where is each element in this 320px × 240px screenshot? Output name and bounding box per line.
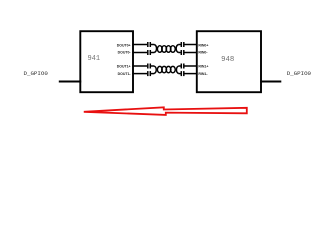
wire choke to C7 [179,65,181,67]
wire DOUT1+ stub [132,65,147,67]
capacitor C5 [181,42,184,47]
wire RIN1+ stub [184,65,197,67]
inductor L1 [154,45,179,53]
wire choke to C8 [179,73,181,75]
svg-text:RIN1-: RIN1- [198,72,208,76]
wire RIN0- stub [184,52,197,54]
wire C1 to choke [151,44,154,46]
capacitor C6 [181,50,184,55]
wire DOUT1- stub [132,73,147,75]
svg-text:948: 948 [221,56,234,64]
capacitor C8 [181,71,184,76]
capacitor C1 [148,42,151,47]
annotation arrow [84,107,247,115]
deserializer U2 box [197,31,261,92]
wire C4 to choke [151,73,154,75]
svg-text:DOUT0-: DOUT0- [118,50,132,54]
wire RIN1- stub [184,73,197,75]
wire C3 to choke [151,65,154,67]
inductor L2 [154,66,179,74]
capacitor C7 [181,64,184,69]
wire DOUT0- stub [132,52,147,54]
serializer U1 box [80,31,133,92]
svg-text:D_GPIO0: D_GPIO0 [24,70,49,77]
svg-text:DOUT0+: DOUT0+ [117,43,131,47]
svg-text:DOUT1-: DOUT1- [118,72,132,76]
svg-text:941: 941 [87,55,100,63]
capacitor C3 [148,64,151,69]
wire choke to C6 [179,52,181,54]
svg-text:DOUT1+: DOUT1+ [117,65,131,69]
svg-text:RIN0-: RIN0- [198,50,208,54]
capacitor C4 [148,71,151,76]
wire C2 to choke [151,52,154,54]
capacitor C2 [148,50,151,55]
wire DOUT0+ stub [132,44,147,46]
wire RIN0+ stub [184,44,197,46]
wire D_GPIO0 right [260,81,281,83]
svg-text:D_GPIO0: D_GPIO0 [287,70,312,77]
wire choke to C5 [179,44,181,46]
wire D_GPIO0 left [59,81,81,83]
svg-text:RIN1+: RIN1+ [198,65,208,69]
svg-text:RIN0+: RIN0+ [198,43,208,47]
